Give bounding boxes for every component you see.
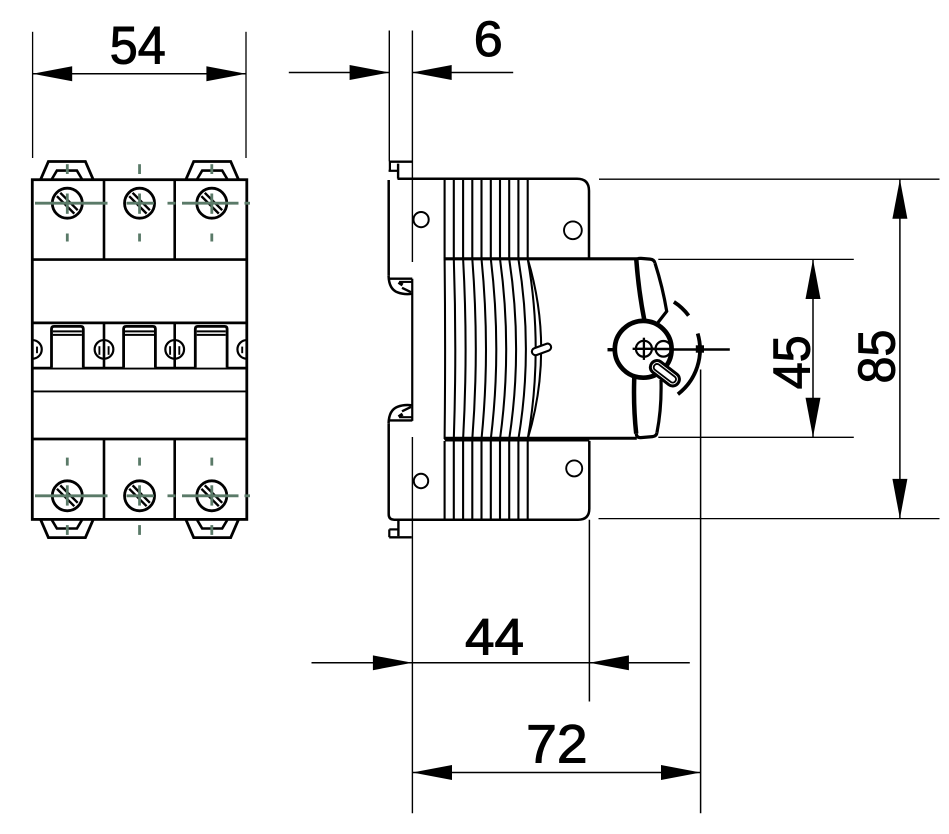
- left edge half circle: [32, 340, 41, 359]
- breaker front body outline: [32, 180, 247, 520]
- rivet circle bottom left: [414, 474, 428, 488]
- bottom mounting clip pole 3: [186, 520, 238, 538]
- DIN rail front line lower / extension: [411, 437, 413, 813]
- rivet circle top right: [564, 221, 582, 239]
- rivet circle top left: [414, 212, 429, 227]
- toggle handle pole 3: [195, 326, 227, 367]
- dimension 54: [33, 32, 246, 158]
- top mounting clip pole 3: [186, 162, 238, 180]
- side body top block: [389, 179, 637, 276]
- svg-text:54: 54: [110, 17, 166, 76]
- rail slot line: [411, 279, 413, 421]
- toggle handle pole 1: [52, 326, 84, 367]
- center mark on travel arc: [696, 345, 704, 352]
- terminal screw top pole 1: [52, 188, 82, 218]
- rivet circle bottom right: [566, 460, 582, 476]
- svg-text:44: 44: [465, 607, 524, 665]
- small circle right of screw: [653, 341, 673, 357]
- ridges on top block: [445, 180, 528, 259]
- ridges on bottom block: [445, 441, 528, 519]
- dimension 85: [599, 179, 940, 518]
- DIN rail back line: [388, 31, 390, 162]
- pivot centerline left dash: [608, 348, 614, 351]
- dimension 6: [289, 65, 513, 80]
- svg-text:6: 6: [474, 11, 503, 67]
- handle travel dashed arc: [674, 302, 689, 316]
- lower rail claw: [389, 405, 413, 423]
- pole divider line 2: [173, 180, 176, 520]
- face slot oval: [531, 343, 552, 357]
- pivot circle: [615, 321, 672, 378]
- horizontal section lines of front body: [32, 260, 247, 439]
- interpole circle 2: [165, 340, 184, 359]
- handle travel arc: [678, 334, 700, 395]
- DIN rail front line upper: [411, 31, 413, 263]
- dimension 44: [312, 520, 690, 702]
- svg-text:72: 72: [526, 714, 588, 774]
- pole divider line 1: [103, 180, 106, 520]
- toggle upper blade: [636, 258, 666, 322]
- svg-text:85: 85: [849, 330, 907, 384]
- toggle handle pole 2: [124, 326, 156, 367]
- side body bottom block: [389, 423, 637, 520]
- upper rail claw: [389, 276, 413, 294]
- pivot horizontal centerline: [670, 348, 730, 351]
- bottom mounting clip pole 1: [41, 520, 93, 538]
- terminal screw bottom pole 1: [52, 481, 82, 511]
- bottom spring clip of side view: [389, 521, 412, 537]
- dimension 45: [658, 259, 854, 437]
- green centerlines of front view: [35, 164, 250, 535]
- crosshead screw in pivot: [633, 338, 656, 360]
- svg-text:45: 45: [764, 335, 822, 389]
- top rail clip of side view: [389, 162, 413, 179]
- locking tongue: [648, 358, 682, 389]
- top mounting clip pole 1: [41, 162, 93, 180]
- dimension 72: [412, 370, 700, 814]
- curved molding arcs: [445, 259, 542, 439]
- right edge half circle: [237, 340, 246, 359]
- terminal screw bottom pole 3: [197, 481, 227, 511]
- interpole circle 1: [95, 340, 114, 359]
- terminal screw bottom pole 2: [125, 481, 155, 511]
- toggle lower blade: [634, 377, 661, 438]
- terminal screw top pole 2: [125, 188, 155, 218]
- terminal screw top pole 3: [197, 188, 227, 218]
